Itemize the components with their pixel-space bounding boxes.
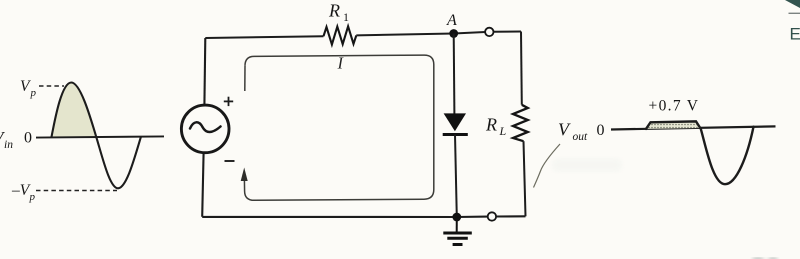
current loop I (rounded rectangle with arrow) [244, 55, 433, 200]
label -Vp [11, 182, 36, 203]
label Vp [20, 78, 37, 99]
diode D1 cathode wire [455, 135, 457, 218]
page corner letter E (clipped heading) [790, 25, 800, 44]
wire right vertical upper (to RL) [520, 32, 523, 105]
label Vin (clipped at left edge) [0, 128, 13, 151]
node A junction dot [449, 29, 458, 38]
svg-text:p: p [29, 191, 36, 203]
ac source VS [181, 105, 229, 153]
output waveform curve (+0.7V clip then negative half) [646, 121, 754, 184]
dashed leader for -Vp [36, 190, 117, 192]
output waveform zero axis [611, 126, 776, 129]
page corner rule line [789, 12, 800, 14]
current loop arrowhead [241, 168, 248, 182]
label Vout [558, 120, 588, 144]
dashed leader for +Vp [39, 85, 64, 87]
page bottom edge cropped text marks [753, 258, 777, 259]
ground symbol [443, 217, 472, 245]
wire left vertical (source to top and bottom rails) [202, 38, 205, 217]
svg-text:in: in [4, 139, 13, 151]
input waveform Vin sine curve [52, 83, 141, 189]
output terminal top (open circle) [485, 28, 493, 36]
svg-text:E: E [790, 25, 800, 44]
wire right vertical lower [524, 141, 526, 216]
svg-text:L: L [499, 124, 507, 138]
wire bottom rail [202, 215, 525, 218]
label 0 input axis [24, 130, 32, 147]
diode D1 [443, 113, 468, 134]
label 0 output axis [597, 122, 605, 139]
source plus sign [224, 97, 233, 106]
bottom junction dot [452, 213, 461, 222]
resistor RL [513, 105, 528, 141]
diode D1 anode wire [453, 34, 456, 114]
page corner logo wedge (top right) [785, 0, 800, 8]
svg-text:+0.7 V: +0.7 V [649, 98, 699, 115]
label RL [485, 115, 507, 139]
svg-text:p: p [30, 87, 37, 99]
svg-text:R: R [485, 115, 497, 135]
input waveform zero axis [36, 136, 164, 137]
wire top rail right segment [356, 32, 521, 36]
output terminal bottom (open circle) [488, 212, 496, 220]
svg-text:0: 0 [597, 122, 605, 139]
resistor R1 [324, 26, 357, 44]
leader line from Vout to RL branch [534, 144, 561, 188]
label A [446, 12, 457, 29]
wire top rail left segment [205, 36, 323, 38]
svg-text:0: 0 [24, 130, 32, 147]
svg-text:out: out [573, 131, 589, 143]
svg-text:1: 1 [343, 10, 349, 24]
label R1 [328, 1, 349, 25]
source minus sign [225, 160, 235, 162]
svg-text:R: R [328, 1, 340, 21]
svg-text:A: A [446, 12, 457, 29]
label I [337, 54, 345, 73]
svg-text:–V: –V [11, 182, 31, 199]
label +0.7 V [649, 98, 699, 115]
output clipped level shading [646, 122, 701, 129]
svg-text:V: V [20, 78, 31, 95]
input waveform shaded positive half-cycle [52, 83, 97, 139]
faint page bleed-through smudge [552, 158, 622, 172]
